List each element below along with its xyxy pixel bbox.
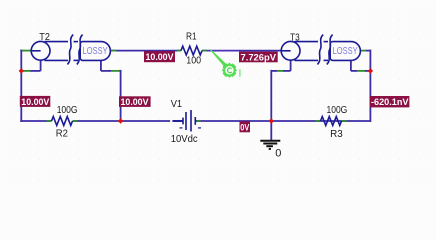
transmission line T3 <box>281 35 360 65</box>
bias label 10.00V left <box>20 96 51 108</box>
svg-text:LOSSY: LOSSY <box>333 46 358 57</box>
wire from 7.726pV label to T3 A+ <box>240 50 282 52</box>
svg-text:R2: R2 <box>56 128 69 139</box>
svg-text:10.00V: 10.00V <box>146 52 175 63</box>
wire left vertical drop x=21.3 <box>20 50 22 122</box>
svg-text:100G: 100G <box>57 105 78 116</box>
wire T3 B+ exit to right vertical <box>360 50 370 122</box>
svg-text:10Vdc: 10Vdc <box>171 134 198 145</box>
ground 0 symbol <box>260 141 280 149</box>
junction dot bottom x=120.6 <box>118 118 123 123</box>
svg-text:7.726pV: 7.726pV <box>241 53 277 64</box>
resistor R2 <box>52 117 73 126</box>
voltage probe cursor <box>210 49 240 77</box>
bias label -620.1nV <box>370 96 409 108</box>
bias label 10.00V top rail <box>144 51 175 63</box>
wire R3 green pin stubs <box>316 120 321 122</box>
svg-text:R3: R3 <box>330 129 343 140</box>
svg-text:10.00V: 10.00V <box>121 97 150 108</box>
svg-text:0V: 0V <box>240 122 250 133</box>
wire T2 A- jog <box>21 60 40 71</box>
svg-text:T2: T2 <box>39 32 50 43</box>
wire R1 green pin stubs <box>177 50 181 52</box>
svg-text:V1: V1 <box>171 99 183 110</box>
junction dot T3 right <box>368 68 373 73</box>
wire R2 green pin stubs <box>47 120 52 122</box>
svg-text:100: 100 <box>186 55 201 66</box>
svg-text:T3: T3 <box>290 32 300 43</box>
junction dot bottom x=271.3 <box>269 118 274 123</box>
svg-text:-620.1nV: -620.1nV <box>371 97 409 108</box>
transmission line T2 <box>31 35 110 65</box>
svg-text:10.00V: 10.00V <box>21 97 50 108</box>
svg-text:LOSSY: LOSSY <box>83 46 108 57</box>
wire mid vertical x=271.3 from T3 A- to ground <box>270 70 272 140</box>
voltage source V1 battery <box>173 110 201 132</box>
svg-text:100G: 100G <box>327 105 348 116</box>
wire T3 A- drop and jog <box>271 60 290 71</box>
resistor R1 <box>181 46 202 55</box>
resistor R3 <box>321 117 342 126</box>
bias label 7.726pV <box>239 52 278 64</box>
wire violet segment right of R1 <box>207 50 240 52</box>
svg-text:0: 0 <box>275 148 281 160</box>
wire T2 B- drop and jog to x=120.6 <box>101 60 121 122</box>
bias label 0V <box>240 121 251 133</box>
wire bottom rail <box>20 120 370 122</box>
wire T3 B- drop and jog <box>351 60 371 71</box>
wire V1 green pin stubs <box>197 120 201 122</box>
junction dot T2 left <box>19 68 24 73</box>
wire T2 A+ left segment <box>20 50 31 52</box>
wire top rail from T2 B+ to R1 and to T3 A+ <box>110 50 206 52</box>
bias label 10.00V mid <box>119 96 151 108</box>
wire T2 B+ green pin stub <box>110 50 116 52</box>
svg-text:R1: R1 <box>186 32 197 43</box>
